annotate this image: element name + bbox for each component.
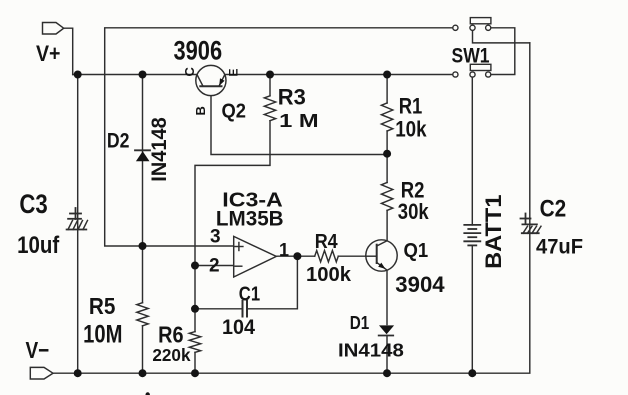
svg-text:3906: 3906: [174, 36, 223, 66]
svg-text:3: 3: [210, 226, 221, 247]
svg-text:B: B: [193, 106, 208, 115]
svg-text:1 M: 1 M: [279, 110, 319, 131]
svg-text:C2: C2: [540, 196, 567, 223]
svg-text:104: 104: [222, 316, 255, 339]
svg-text:30k: 30k: [398, 199, 430, 224]
svg-text:C3: C3: [19, 189, 47, 219]
svg-text:R6: R6: [158, 322, 183, 348]
svg-text:R5: R5: [89, 293, 116, 319]
svg-text:10M: 10M: [83, 321, 122, 349]
svg-text:R4: R4: [315, 230, 339, 253]
svg-text:D2: D2: [107, 129, 130, 152]
svg-text:R3: R3: [278, 85, 306, 110]
svg-text:IN4148: IN4148: [338, 339, 404, 360]
svg-text:R1: R1: [399, 94, 423, 119]
svg-text:220k: 220k: [152, 345, 190, 365]
svg-text:Q1: Q1: [404, 239, 429, 262]
svg-text:1: 1: [279, 240, 289, 260]
svg-text:2: 2: [209, 256, 220, 277]
svg-text:LM35B: LM35B: [216, 206, 284, 230]
svg-text:Q2: Q2: [222, 101, 247, 123]
svg-text:IN4148: IN4148: [148, 117, 171, 182]
svg-text:E: E: [227, 68, 241, 76]
svg-text:10k: 10k: [395, 117, 427, 142]
svg-text:3904: 3904: [395, 272, 445, 297]
svg-text:10uf: 10uf: [17, 232, 60, 259]
svg-text:SW1: SW1: [452, 45, 490, 68]
svg-text:47uF: 47uF: [536, 236, 583, 259]
svg-text:C: C: [182, 67, 197, 77]
svg-text:V−: V−: [26, 337, 50, 363]
svg-text:C1: C1: [239, 284, 260, 306]
svg-text:V+: V+: [36, 41, 61, 66]
svg-text:100k: 100k: [306, 264, 352, 286]
svg-text:D1: D1: [350, 312, 370, 333]
svg-text:BATT1: BATT1: [481, 195, 506, 269]
